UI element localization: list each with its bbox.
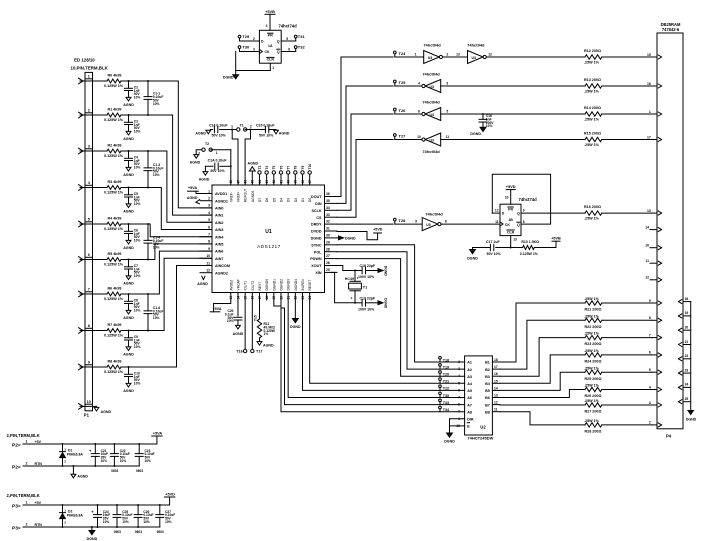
wire pin 21 to U2 A6 [288,293,464,398]
svg-text:AIN2: AIN2 [215,221,223,225]
wire pin 24 to U2 A4 [310,293,465,384]
svg-text:2,PIN,TERM,BLK: 2,PIN,TERM,BLK [7,433,40,438]
svg-text:35: 35 [326,199,330,203]
capacitor C20 0.1uF at pin 14 [237,293,239,316]
svg-text:0603: 0603 [157,530,164,534]
svg-text:74HCT245DW: 74HCT245DW [467,435,493,440]
ground AGND [126,383,131,387]
svg-text:P2>: P2> [12,443,21,449]
svg-text:T4: T4 [265,165,269,169]
svg-text:R22 200Ω: R22 200Ω [585,325,602,329]
svg-text:25: 25 [326,268,330,272]
wire row 2 [80,114,107,116]
svg-text:R21 200Ω: R21 200Ω [585,308,602,312]
svg-text:0603: 0603 [136,469,143,473]
pin 6 AIN3 [200,229,212,231]
ground AGND below C20 [236,325,241,329]
capacitor C14 0.10uF [211,129,213,131]
svg-text:A2: A2 [467,368,472,372]
svg-text:12: 12 [494,401,498,405]
svg-text:R3 4k99: R3 4k99 [108,180,122,184]
svg-text:50V 10%: 50V 10% [212,134,227,138]
wire [602,371,652,373]
wire [441,113,585,115]
svg-text:CS: CS [316,216,322,220]
svg-text:10%: 10% [134,96,141,100]
svg-text:12: 12 [206,269,210,273]
pin 8 AIN5 [200,243,212,245]
svg-text:16: 16 [647,82,651,86]
svg-text:R13 200Ω: R13 200Ω [584,78,601,82]
svg-text:T29: T29 [242,34,250,39]
svg-text:Q: Q [277,40,280,44]
svg-text:AGND: AGND [123,173,134,177]
svg-text:10%: 10% [153,102,160,106]
svg-text:AGND: AGND [190,160,201,164]
svg-text:B4: B4 [485,382,491,386]
svg-text:+: + [89,449,92,454]
wire net AIN4 [148,224,212,237]
wire [245,129,265,131]
svg-text:Q: Q [517,212,520,216]
svg-text:747842-6: 747842-6 [662,27,680,32]
svg-text:74hct04d: 74hct04d [423,42,441,47]
svg-text:12: 12 [495,209,499,213]
svg-text:5: 5 [286,37,288,41]
pin 10 of P4 (unconnected) [650,247,657,249]
svg-text:T20: T20 [443,373,449,377]
terminal T9 [302,174,304,185]
svg-text:10%: 10% [134,202,141,206]
IC U2 74HCT245DW [465,356,493,435]
IC U1 ADS1217 [212,185,325,293]
svg-text:P1: P1 [84,413,90,418]
svg-text:10,PIN,TERM,BLK: 10,PIN,TERM,BLK [71,66,109,71]
wire [129,114,149,116]
svg-text:T17: T17 [256,350,263,354]
svg-text:ED 128/10: ED 128/10 [74,58,95,63]
wire [129,259,149,261]
svg-text:8: 8 [88,324,90,328]
svg-text:10%: 10% [145,459,152,463]
svg-text:BUFEN: BUFEN [301,279,305,291]
svg-text:T22: T22 [443,387,449,391]
wire [441,223,500,225]
svg-text:T35: T35 [443,394,449,398]
pin 16 of P4 [652,85,657,87]
wire RTN row [23,526,160,528]
wire [602,85,652,87]
svg-text:XOUT: XOUT [311,264,322,268]
svg-text:D: D [502,212,505,216]
resistor R14 200 [585,112,602,116]
svg-text:Q: Q [517,223,520,227]
svg-text:R25 200Ω: R25 200Ω [585,377,602,381]
resistor R23 200 [585,335,602,339]
svg-text:14: 14 [645,225,649,229]
terminal T35 [439,392,442,395]
svg-text:C19 22pF: C19 22pF [360,297,376,301]
svg-text:AGND: AGND [248,162,259,166]
svg-text:.25W 1%: .25W 1% [584,314,600,318]
wire B5 net [500,372,585,390]
svg-text:.25W 1%: .25W 1% [584,89,600,93]
svg-text:+5VD: +5VD [506,184,516,189]
svg-text:B7: B7 [485,403,490,407]
ground DGND of U2 [447,433,453,437]
svg-text:DGND: DGND [384,266,388,277]
jumper T2 [202,148,205,151]
svg-text:D3: D3 [287,198,291,202]
svg-text:9: 9 [415,220,417,224]
svg-text:5: 5 [649,368,651,372]
svg-text:0.125W 1%: 0.125W 1% [104,118,124,122]
svg-text:+5VA: +5VA [153,431,163,435]
terminal T16 at pin 15 [244,293,246,350]
svg-text:IOUT1: IOUT1 [244,281,248,291]
wire [395,56,424,58]
pin 1 of P1 [79,78,83,81]
svg-text:POL: POL [314,250,322,254]
svg-text:REFOUT: REFOUT [244,188,248,202]
capacitor C9 1nF [128,331,130,338]
svg-text:4: 4 [88,181,91,185]
wire [602,319,652,321]
svg-text:AGND: AGND [101,410,112,414]
svg-text:AGND: AGND [123,210,134,214]
svg-text:T5: T5 [272,165,276,169]
svg-text:DOUT: DOUT [311,195,322,199]
svg-text:0.125W 1%: 0.125W 1% [104,154,124,158]
svg-text:AGND: AGND [187,196,198,200]
svg-text:HC49: HC49 [345,277,354,281]
svg-text:R4 4k99: R4 4k99 [108,216,122,220]
resistor R1 4k99 [107,113,121,117]
resistor R4 4k99 [107,222,121,226]
flip-flop U4A 74hct74d [259,30,281,63]
svg-text:Y1: Y1 [363,285,368,289]
svg-text:10%: 10% [134,130,141,134]
pin 22 of P4 (right) [683,358,691,360]
capacitor C1-1 0.10uF [147,80,149,82]
wire CLR pin 13 node [510,236,512,248]
svg-text:0.125W 1%: 0.125W 1% [104,334,124,338]
svg-text:A8: A8 [467,410,472,414]
svg-text:12: 12 [488,52,492,56]
svg-text:P6KE6.8A: P6KE6.8A [67,514,84,518]
resistor R5 4k99 [107,258,121,262]
diode D2 P6KE6.8A [62,504,64,506]
wire [487,56,585,58]
inverter U3A 74hct04d [424,51,440,64]
wire [602,424,652,426]
svg-text:R7 4k99: R7 4k99 [108,323,122,327]
svg-text:R28 200Ω: R28 200Ω [585,430,602,434]
svg-text:1: 1 [88,75,90,79]
pin 8 of P4 [652,319,657,321]
ground AGND [126,204,131,208]
resistor R28 200 [585,423,602,427]
svg-text:.25W 1%: .25W 1% [584,399,600,403]
pin 4 of P1 [79,185,83,188]
svg-text:12: 12 [645,276,649,280]
svg-text:AINCOM: AINCOM [215,264,230,268]
svg-text:AGND: AGND [123,389,134,393]
resistor R15 200 [585,137,602,141]
svg-text:15: 15 [494,379,498,383]
svg-text:3: 3 [208,204,210,208]
wire [121,223,129,225]
svg-text:AGND2: AGND2 [215,271,228,275]
wire [602,139,652,141]
ground DGND left of C17 [473,247,491,249]
svg-text:T3: T3 [258,165,262,169]
wire row 9 [80,366,107,368]
wire [121,187,129,189]
svg-text:15: 15 [647,53,651,57]
wire T2 to pin 48 [211,149,231,151]
svg-text:.25W 1%: .25W 1% [584,384,600,388]
svg-text:DGND1: DGND1 [272,279,276,291]
pin 7 of P4 [652,337,657,339]
svg-text:D1: D1 [301,198,305,202]
svg-text:8: 8 [523,220,525,224]
svg-text:DGND: DGND [467,256,478,260]
terminal T17 at pin 16 [251,293,253,350]
wire [121,366,129,368]
svg-text:9: 9 [649,299,651,303]
svg-text:10%: 10% [134,345,141,349]
pin 36 DOUT [325,196,338,198]
svg-text:T16: T16 [236,350,243,354]
pin 9 of P1 [79,364,83,367]
svg-text:T9: T9 [301,165,305,169]
wire DIR and E to ground [450,419,465,433]
pin 17 of P4 [652,139,657,141]
wire B4 net [500,355,585,383]
wire pin 18 stub [266,293,268,301]
connector P1 10-pin terminal block [85,72,93,410]
resistor R27 200 [585,403,602,407]
capacitor C26 0.10uF [137,504,139,506]
pin 31 DVDD [325,230,338,232]
svg-text:+5VA: +5VA [212,307,221,311]
svg-text:.25W 1%: .25W 1% [584,297,600,301]
svg-text:CK: CK [505,223,511,227]
svg-text:U3: U3 [426,223,431,227]
terminal T26 [393,108,396,111]
svg-text:10: 10 [505,196,509,200]
pin 2 of P4 [652,424,657,426]
ground DGND of U4A [233,75,239,79]
svg-text:10: 10 [206,254,210,258]
terminal T4 [266,174,268,185]
wire VREF- to pin 47 [232,130,238,186]
wire [121,259,129,261]
svg-text:DGND: DGND [290,325,301,329]
wire DGND bus right of P4 [690,302,692,411]
wire POL to U2 A2 [337,252,465,369]
ground AGND at T2 [196,150,203,155]
wire +5V row [23,443,157,445]
svg-text:10%: 10% [120,459,127,463]
svg-text:10%: 10% [134,309,141,313]
ground AGND [126,276,131,280]
flip-flop U4B 74hct74d [500,204,521,235]
wire row 5 [80,223,107,225]
terminal T22 [439,385,442,388]
terminal T25 [393,80,396,83]
svg-text:C15 0.10uF: C15 0.10uF [256,123,275,127]
svg-text:1: 1 [649,110,651,114]
terminal T6 [280,174,282,185]
inverter U3B 74hct04d [425,80,441,93]
svg-text:10%: 10% [122,520,129,524]
power +5VA at pin 1 [196,191,212,193]
svg-text:R5 4k99: R5 4k99 [108,252,122,256]
wire row 4 [80,187,107,189]
svg-text:24: 24 [685,383,689,387]
svg-text:R12 200Ω: R12 200Ω [584,49,601,53]
svg-text:10%: 10% [103,520,110,524]
wire net AIN7 [148,258,212,330]
svg-text:T24: T24 [399,51,407,56]
pin 2 AGND1 [200,200,212,202]
capacitor C8 1nF [128,294,130,301]
ground AGND [126,310,131,314]
svg-text:C14 0.10uF: C14 0.10uF [209,123,228,127]
capacitor C22 0.10uF [113,443,115,445]
svg-text:1: 1 [415,52,417,56]
svg-text:36: 36 [326,192,330,196]
terminal T10 [309,174,311,185]
svg-text:2: 2 [64,460,66,464]
pin 2 of P1 [79,112,83,115]
resistor R16 200 [585,211,602,215]
svg-text:100V 10%: 100V 10% [358,308,375,312]
svg-text:PR: PR [268,34,273,38]
svg-text:10%: 10% [134,166,141,170]
inverter U3D 74hct04d [425,133,441,146]
svg-text:5: 5 [446,109,448,113]
svg-text:13: 13 [647,209,651,213]
svg-text:R16 200Ω: R16 200Ω [584,205,601,209]
svg-text:5: 5 [88,218,90,222]
svg-text:18: 18 [494,358,498,362]
connector P4 DB25RAM [657,33,683,429]
svg-text:32: 32 [326,220,330,224]
capacitor C5 1nF [128,188,130,195]
wire CLR pin 1 to ground [236,63,271,70]
terminal T31 [281,40,296,42]
ground AGND at pin 12 [202,276,204,279]
svg-text:CLR: CLR [507,230,515,234]
pin 1 AVDD1 [200,193,212,195]
capacitor C25 0.10uF [116,504,118,506]
wire [602,302,652,304]
pin 11 of P4 (unconnected) [650,262,657,264]
resistor R12 200 [585,55,602,59]
svg-text:AGND: AGND [199,177,210,181]
pin 33 CS [325,216,338,218]
svg-text:DGND: DGND [686,418,697,422]
svg-text:13: 13 [513,238,517,242]
wire pin 20 to U2 A7 [281,293,465,405]
svg-text:VRCAP: VRCAP [236,278,240,290]
svg-text:PR: PR [508,207,513,211]
terminal T5 [273,174,275,185]
svg-text:8: 8 [649,316,651,320]
svg-text:1B: 1B [508,218,513,222]
svg-text:0.125W 1%: 0.125W 1% [520,252,539,256]
pin 34 SCLK [325,209,338,211]
svg-text:10: 10 [417,135,421,139]
svg-text:10%: 10% [143,520,150,524]
svg-text:3: 3 [88,145,90,149]
pin 10 AIN7 [200,257,212,259]
svg-text:11: 11 [206,261,210,265]
pin 10 of P1 [79,404,83,407]
wire pin 23 to U2 A5 [303,293,465,391]
svg-text:A3: A3 [467,375,472,379]
capacitor C10 1nF [128,367,130,374]
svg-text:R1 4k99: R1 4k99 [108,107,122,111]
svg-text:U3: U3 [430,113,435,117]
svg-text:CK: CK [265,50,271,54]
svg-text:+5VD: +5VD [165,492,175,496]
svg-text:T31: T31 [298,34,306,39]
jumper T1 [237,128,240,131]
power +5VD at DVDD pin 31 [337,232,378,240]
terminal T7 [287,174,289,185]
wire Q output to R16 [521,212,585,214]
svg-text:R0 4k99: R0 4k99 [108,73,122,77]
wire [220,129,239,131]
svg-text:XIN: XIN [315,271,321,275]
svg-text:9: 9 [523,209,525,213]
svg-text:30: 30 [326,234,330,238]
wire row 8 [80,330,107,332]
svg-text:1%: 1% [264,332,269,336]
svg-text:0.125W 1%: 0.125W 1% [104,297,124,301]
svg-text:DGND: DGND [345,237,356,241]
svg-text:DGND: DGND [311,237,322,241]
terminal T19 [439,364,442,367]
svg-text:0.125W 1%: 0.125W 1% [104,227,124,231]
wire [395,113,422,115]
svg-text:0603: 0603 [111,469,118,473]
svg-text:B2: B2 [485,368,490,372]
svg-text:1A: 1A [268,44,273,48]
svg-text:AGND: AGND [123,316,134,320]
diode D1 P6KE6.8A [62,443,64,445]
svg-text:1: 1 [26,501,28,505]
wire [121,150,129,152]
power +5VA at pin 13 AVDD2 [214,293,231,312]
svg-text:6: 6 [288,48,290,52]
resistor R3 4k99 [107,186,121,190]
terminal T29 [238,35,241,38]
svg-text:7: 7 [88,288,90,292]
wire [121,330,129,332]
ground AGND stub [72,465,74,467]
svg-text:A6: A6 [467,396,472,400]
pin 15 of P4 [652,56,657,58]
pin 7 of P1 [79,291,83,294]
svg-text:74hct04d: 74hct04d [422,100,440,105]
terminal T27 [393,134,396,137]
svg-text:T8: T8 [294,165,298,169]
